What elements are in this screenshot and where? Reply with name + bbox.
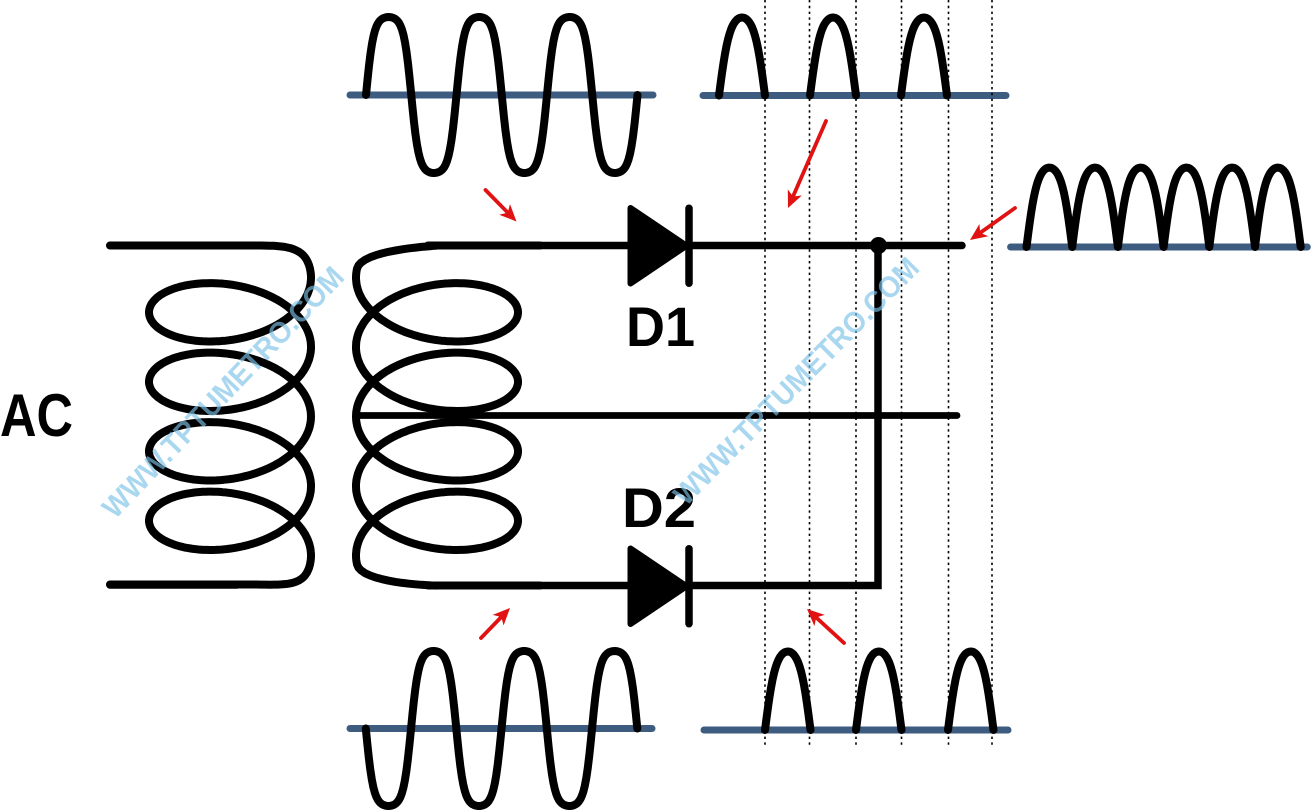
svg-text:WWW.TPTUMETRO.COM: WWW.TPTUMETRO.COM (668, 251, 926, 512)
svg-text:D1: D1 (626, 295, 695, 358)
svg-text:AC: AC (0, 382, 73, 449)
